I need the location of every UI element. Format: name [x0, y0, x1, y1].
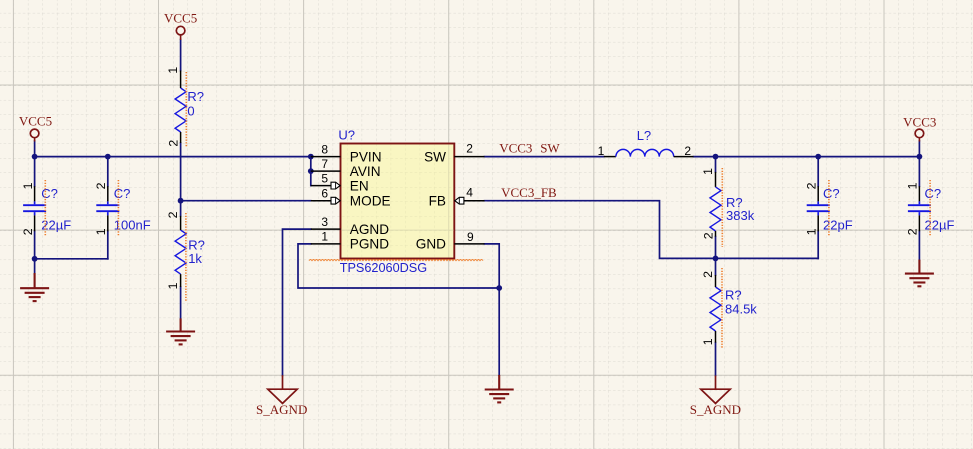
wire: left ground drop — [34, 259, 36, 274]
mark under TPS62060DSG — [309, 260, 483, 261]
wire: MODE net — [181, 200, 311, 202]
input arrow MODE — [331, 197, 340, 204]
svg-text:383k: 383k — [726, 208, 755, 223]
pin 6 MODE — [311, 200, 341, 202]
svg-text:R?: R? — [187, 89, 204, 104]
S_AGND symbol (left) — [268, 375, 297, 403]
svg-text:9: 9 — [467, 230, 474, 244]
svg-text:VCC3: VCC3 — [903, 114, 936, 129]
svg-text:84.5k: 84.5k — [725, 302, 757, 317]
svg-text:AVIN: AVIN — [350, 164, 381, 179]
svg-text:VCC3_FB: VCC3_FB — [501, 185, 557, 200]
wire: C 22uF right top lead — [918, 157, 920, 187]
svg-text:AGND: AGND — [350, 222, 389, 237]
node: PGND/GND — [496, 285, 502, 291]
pin 2 SW — [454, 156, 484, 158]
inductor L? — [604, 149, 694, 156]
svg-text:C?: C? — [41, 186, 58, 201]
input arrow FB — [455, 197, 464, 204]
svg-text:VCC5: VCC5 — [164, 11, 197, 26]
wire: R1k bottom to ground — [180, 287, 182, 319]
ground (earth) below C? 22uF right — [905, 260, 934, 287]
pin 3 AGND — [311, 228, 341, 230]
svg-text:VCC5: VCC5 — [19, 113, 52, 128]
wire: C2 top lead — [107, 157, 109, 187]
wire: R383k top lead — [715, 157, 717, 172]
mark C1 — [44, 180, 46, 236]
wire: VCC3 drop — [918, 141, 920, 157]
svg-text:2: 2 — [701, 232, 715, 239]
svg-text:SW: SW — [540, 141, 560, 156]
wire: SW to inductor — [485, 156, 604, 158]
power port VCC3 — [915, 129, 924, 141]
svg-text:FB: FB — [429, 194, 446, 209]
wire: FB net — [485, 201, 819, 259]
wire: inductor to VCC3 — [694, 156, 920, 158]
svg-text:PVIN: PVIN — [350, 149, 382, 164]
svg-text:C?: C? — [925, 186, 942, 201]
svg-text:3: 3 — [321, 215, 328, 229]
IC pins — [311, 157, 485, 244]
capacitor C? 22pF — [807, 186, 830, 231]
wire: EN/AVIN vertical — [310, 157, 312, 186]
node: pin7 — [308, 168, 314, 174]
resistor R? 383k — [710, 187, 721, 231]
wire: R383k bottom lead — [715, 237, 717, 259]
wire: caps bottom bus — [35, 258, 108, 260]
S_AGND symbol (right) — [701, 376, 730, 404]
wire: R0 bottom through crossing to MODE junction — [180, 143, 182, 216]
svg-text:SW: SW — [424, 149, 446, 164]
svg-text:U?: U? — [338, 128, 355, 143]
mark R1k — [185, 213, 187, 301]
svg-text:VCC3: VCC3 — [499, 141, 532, 156]
svg-text:EN: EN — [350, 178, 369, 193]
ground (earth) below left caps — [20, 273, 49, 301]
svg-text:2: 2 — [21, 228, 35, 235]
svg-text:TPS62060DSG: TPS62060DSG — [340, 261, 427, 275]
wire: C1 top lead — [34, 157, 36, 187]
IC U? TPS62060DSG body — [341, 144, 455, 259]
node: VCC3 — [917, 154, 923, 160]
node: MODE/R1k — [178, 198, 184, 204]
capacitor C? 22uF (left) — [23, 186, 46, 231]
wire: GND pin9 net — [485, 244, 500, 375]
ground (earth) below R? 1k — [166, 318, 195, 344]
svg-text:1: 1 — [598, 144, 605, 158]
svg-text:PGND: PGND — [350, 237, 389, 252]
svg-text:MODE: MODE — [350, 194, 391, 209]
pin leads R0 — [180, 71, 182, 89]
svg-text:7: 7 — [321, 157, 328, 171]
mark R84.5k — [721, 268, 723, 348]
svg-text:2: 2 — [804, 182, 818, 189]
pin 7 AVIN — [311, 170, 341, 172]
svg-text:8: 8 — [321, 142, 328, 156]
wire: R84.5k top lead — [715, 258, 717, 275]
svg-text:0: 0 — [187, 104, 194, 119]
wire: C1 bottom lead — [34, 231, 36, 258]
svg-text:S_AGND: S_AGND — [690, 402, 741, 417]
svg-text:GND: GND — [416, 237, 446, 252]
svg-text:2: 2 — [166, 140, 180, 147]
capacitor C? 22uF (right) — [908, 186, 931, 231]
pin 4 FB — [454, 200, 484, 202]
svg-text:22pF: 22pF — [823, 218, 853, 233]
node: FB divider — [713, 256, 719, 262]
svg-text:5: 5 — [321, 171, 328, 185]
svg-text:R?: R? — [725, 288, 742, 303]
mark R0 — [185, 72, 187, 147]
svg-text:C?: C? — [823, 186, 840, 201]
node: 22pF top — [815, 154, 821, 160]
resistor R? 1k — [175, 230, 186, 274]
wire: C 22uF right bottom lead — [918, 231, 920, 260]
svg-text:2: 2 — [94, 182, 108, 189]
capacitor C? 100nF — [96, 186, 119, 231]
svg-text:2: 2 — [166, 211, 180, 218]
svg-text:1: 1 — [701, 168, 715, 175]
svg-text:1: 1 — [21, 182, 35, 189]
wire: R84.5k bottom to S_AGND — [715, 343, 717, 376]
mark C2 — [117, 180, 119, 236]
wire: left VCC5 drop — [34, 141, 36, 157]
svg-text:2: 2 — [466, 141, 473, 155]
mark 22uF right — [929, 180, 931, 236]
wire: C 22pF top lead — [817, 157, 819, 187]
pin 9 GND — [454, 243, 484, 245]
svg-text:1: 1 — [94, 228, 108, 235]
svg-text:1k: 1k — [188, 251, 202, 266]
svg-text:4: 4 — [466, 185, 473, 199]
wire: VCC5 main horizontal bus to IC pin 8 — [35, 156, 311, 158]
svg-text:22µF: 22µF — [41, 218, 71, 233]
svg-text:1: 1 — [321, 230, 328, 244]
input arrow EN — [331, 182, 340, 189]
svg-text:1: 1 — [166, 282, 180, 289]
svg-text:1: 1 — [166, 67, 180, 74]
svg-text:L?: L? — [637, 128, 651, 143]
svg-text:2: 2 — [701, 271, 715, 278]
wire: AGND net — [283, 229, 311, 375]
wire: PGND net — [298, 244, 499, 288]
svg-text:2: 2 — [684, 144, 691, 158]
node: caps bottom — [32, 256, 38, 262]
node: C2 top — [105, 154, 111, 160]
power port VCC5 (top) — [176, 26, 185, 40]
resistor R? 0 (top) — [175, 88, 186, 132]
node: SW/R383k — [713, 154, 719, 160]
wire: C2 bottom lead — [107, 231, 109, 258]
svg-text:22µF: 22µF — [925, 218, 955, 233]
power port VCC5 (left) — [30, 129, 39, 141]
ground (earth) below GND pin 9 — [485, 375, 514, 403]
svg-text:2: 2 — [906, 228, 920, 235]
svg-text:C?: C? — [114, 186, 131, 201]
node: VCC5/C1 — [32, 154, 38, 160]
svg-text:S_AGND: S_AGND — [256, 402, 307, 417]
pin 5 EN — [311, 185, 341, 187]
svg-text:1: 1 — [701, 338, 715, 345]
wire: C 22pF bottom lead — [817, 231, 819, 258]
svg-text:1: 1 — [804, 228, 818, 235]
mark R383k — [721, 168, 723, 247]
svg-text:1: 1 — [906, 182, 920, 189]
pin 8 PVIN — [311, 156, 341, 158]
node: pin8 — [308, 154, 314, 160]
svg-text:6: 6 — [321, 186, 328, 200]
pin 1 PGND — [311, 243, 341, 245]
resistor R? 84.5k — [710, 287, 721, 331]
svg-text:100nF: 100nF — [114, 218, 151, 233]
wire: top VCC5 drop to R0 — [180, 40, 182, 71]
mark 22pF — [828, 180, 830, 236]
